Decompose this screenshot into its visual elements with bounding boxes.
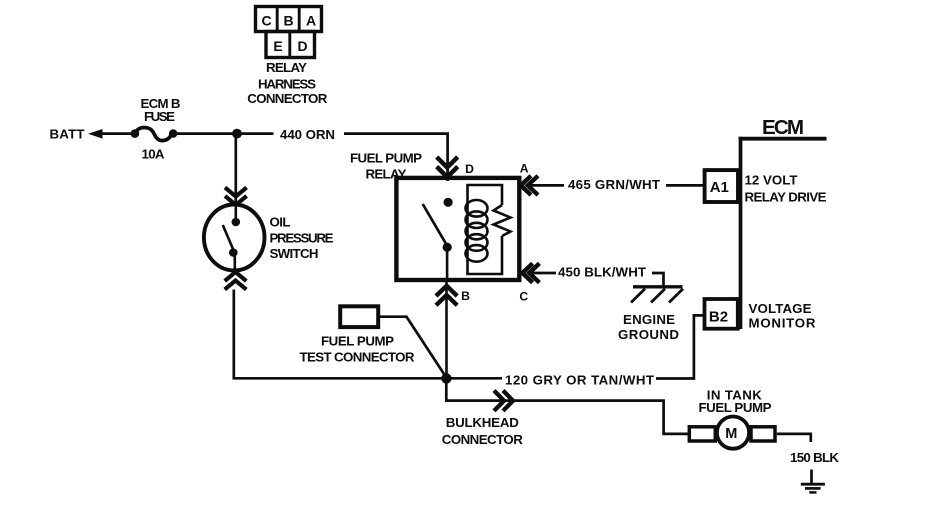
switch blade xyxy=(223,225,233,249)
wire relay pin B down to junction xyxy=(445,282,448,379)
svg-text:RELAY: RELAY xyxy=(266,60,307,75)
svg-text:SWITCH: SWITCH xyxy=(270,246,319,261)
svg-text:E: E xyxy=(273,38,282,54)
switch contact lower xyxy=(443,243,452,252)
svg-text:TEST CONNECTOR: TEST CONNECTOR xyxy=(300,349,415,364)
svg-text:M: M xyxy=(725,426,737,442)
wire motor to ground xyxy=(777,434,811,442)
wire 440 ORN to relay pin D xyxy=(344,134,448,158)
connector chevrons below oil pressure switch xyxy=(225,272,247,281)
ground G1 stem xyxy=(810,470,813,485)
svg-text:RELAY DRIVE: RELAY DRIVE xyxy=(745,189,827,204)
wire pin C to 450 label xyxy=(531,272,557,275)
svg-text:ENGINE: ENGINE xyxy=(623,312,675,327)
wire 450 to engine ground xyxy=(652,273,664,285)
connector J1 relay harness connector top row shell xyxy=(256,7,322,32)
resistor R1 zigzag xyxy=(494,205,511,236)
switch blade xyxy=(423,204,447,244)
chassis ground hash strokes xyxy=(631,289,645,303)
switch contact upper (relay common) xyxy=(444,198,453,207)
wire test connector to junction xyxy=(379,317,446,378)
svg-text:FUEL PUMP: FUEL PUMP xyxy=(699,400,772,415)
ground G1 bars xyxy=(801,483,825,486)
fuel pump motor M1 left terminal xyxy=(689,427,715,441)
connector chevrons above oil pressure switch xyxy=(225,188,247,197)
oil pressure switch S1 body xyxy=(204,205,265,271)
wire 465 to A1 xyxy=(666,184,703,187)
svg-text:C: C xyxy=(261,13,271,29)
svg-text:GROUND: GROUND xyxy=(618,327,679,342)
fuel pump motor M1 body xyxy=(717,417,749,449)
wire bottom contact down xyxy=(234,256,237,270)
svg-text:FUEL PUMP: FUEL PUMP xyxy=(321,334,394,349)
ECM module line xyxy=(739,137,743,329)
svg-text:A1: A1 xyxy=(710,179,729,196)
svg-text:B: B xyxy=(283,13,293,29)
svg-text:C: C xyxy=(519,289,528,303)
svg-text:VOLTAGE: VOLTAGE xyxy=(749,301,812,316)
svg-text:10A: 10A xyxy=(142,147,165,162)
connector J1 bottom row shell xyxy=(266,32,315,58)
svg-text:BULKHEAD: BULKHEAD xyxy=(446,415,519,430)
svg-text:150 BLK: 150 BLK xyxy=(790,450,839,465)
svg-text:465 GRN/WHT: 465 GRN/WHT xyxy=(568,177,660,192)
svg-text:PRESSURE: PRESSURE xyxy=(270,230,334,245)
svg-text:120 GRY OR TAN/WHT: 120 GRY OR TAN/WHT xyxy=(505,372,654,387)
svg-text:ECM: ECM xyxy=(762,116,804,139)
coil L1 windings xyxy=(466,200,488,217)
connector J1 divider C/B xyxy=(276,7,279,32)
connector chevrons pin A xyxy=(521,176,531,195)
switch bottom contact xyxy=(229,248,238,257)
svg-text:RELAY: RELAY xyxy=(366,166,407,181)
fuse F1 ECM B FUSE 10A xyxy=(131,129,140,138)
switch wire into top contact xyxy=(235,205,238,219)
svg-text:12 VOLT: 12 VOLT xyxy=(745,172,798,187)
fuel pump motor M1 right terminal xyxy=(751,427,775,441)
relay K1 FUEL PUMP RELAY box xyxy=(396,178,519,280)
svg-text:D: D xyxy=(465,162,474,176)
wire into relay pin D xyxy=(446,158,449,181)
svg-text:BATT: BATT xyxy=(50,127,85,142)
wire BATT to fuse xyxy=(99,132,132,135)
connector chevrons pin B xyxy=(436,286,457,296)
connector J1 divider B/A xyxy=(298,7,301,32)
ECM pin B2 box xyxy=(705,299,738,329)
svg-text:440 ORN: 440 ORN xyxy=(280,127,335,142)
ECM pin A1 box xyxy=(705,170,738,202)
wire 120 to ECM pin B2 xyxy=(656,315,703,378)
bulkhead connector chevrons xyxy=(494,391,504,411)
connector chevrons pin D xyxy=(437,157,458,168)
svg-text:FUSE: FUSE xyxy=(144,109,175,124)
svg-text:B: B xyxy=(461,289,470,303)
svg-text:D: D xyxy=(297,38,307,54)
svg-text:A: A xyxy=(306,13,316,29)
svg-text:450 BLK/WHT: 450 BLK/WHT xyxy=(558,265,646,280)
svg-text:CONNECTOR: CONNECTOR xyxy=(247,91,327,106)
switch top contact xyxy=(232,218,241,227)
wire pin A to 465 label xyxy=(529,184,564,187)
svg-text:HARNESS: HARNESS xyxy=(258,76,316,91)
relay coil enclosure box xyxy=(468,185,503,274)
wire junction down through bulkhead to fuel pump xyxy=(446,378,689,434)
svg-text:B2: B2 xyxy=(709,308,728,325)
chassis ground bar xyxy=(633,285,683,288)
node junction 120 wire xyxy=(441,373,451,383)
node junction 440 ORN xyxy=(232,129,242,139)
wire fuse to junction xyxy=(176,132,274,135)
wire junction down to oil pressure switch xyxy=(234,138,237,206)
svg-text:FUEL PUMP: FUEL PUMP xyxy=(350,151,422,166)
arrowhead to BATT xyxy=(88,129,103,139)
svg-text:OIL: OIL xyxy=(270,215,291,230)
connector J1 divider E/D xyxy=(288,32,291,58)
svg-text:CONNECTOR: CONNECTOR xyxy=(442,432,523,447)
svg-text:A: A xyxy=(520,161,529,175)
wire lower contact to pin B xyxy=(446,251,449,279)
svg-text:MONITOR: MONITOR xyxy=(749,316,816,331)
wire oil pressure switch down and right to junction xyxy=(234,290,502,379)
fuel pump test connector J2 xyxy=(340,306,378,327)
connector chevrons pin C xyxy=(522,263,532,282)
